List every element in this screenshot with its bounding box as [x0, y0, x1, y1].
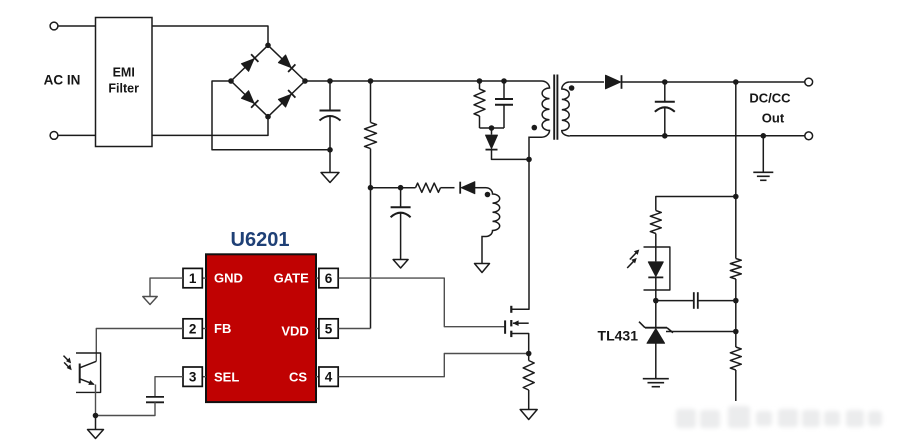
wire to D6 — [491, 128, 493, 135]
pin 1 box — [183, 268, 202, 287]
wire rail to R1 — [370, 81, 372, 122]
diode D5 aux rectifier (points left) — [461, 182, 475, 194]
wire EMI top to bridge AC1 — [152, 26, 268, 45]
pin 3 box — [183, 367, 202, 386]
bridge diode D1 (left to top) — [241, 59, 254, 72]
pin 6 stub — [316, 277, 319, 279]
wire junction to C2 tap — [371, 187, 416, 189]
svg-text:GND: GND — [214, 271, 243, 286]
wire R7 to ground — [528, 390, 530, 410]
aux winding phase dot — [485, 192, 491, 198]
svg-text:3: 3 — [189, 370, 197, 385]
node startup resistor tap — [368, 78, 374, 84]
wire C5 to divider node — [698, 300, 736, 302]
wire top terminal to EMI — [58, 25, 96, 27]
earth ground output — [762, 136, 764, 173]
ground primary-side (bulk) — [329, 150, 331, 173]
bridge diode D2 (top to right) — [278, 55, 291, 68]
pin 4 stub — [316, 376, 319, 378]
diode D7 output rectifier (points right) — [606, 75, 621, 89]
svg-text:6: 6 — [325, 271, 333, 286]
svg-text:SEL: SEL — [214, 369, 239, 384]
svg-text:VDD: VDD — [281, 324, 308, 339]
wire bridge minus to ground node — [212, 81, 330, 150]
svg-text:AC IN: AC IN — [44, 73, 81, 88]
node output cap top — [662, 79, 668, 85]
EMI filter block — [96, 18, 153, 147]
ground pin1 — [149, 296, 151, 298]
MOSFET body stub with arrow — [513, 322, 529, 324]
wire sense vertical upper — [735, 82, 737, 259]
wire R4 to cap node — [735, 279, 737, 332]
wire D6 to drain node — [492, 150, 530, 160]
capacitor C3 snubber — [495, 98, 513, 100]
resistor R2 aux series — [416, 183, 441, 192]
wire snubber join — [480, 127, 505, 129]
svg-text:1: 1 — [189, 271, 197, 286]
node drain junction — [526, 157, 532, 163]
pin 2 stub — [202, 328, 206, 330]
TL431 shunt regulator U2 — [645, 327, 667, 329]
bridge node top — [265, 43, 271, 49]
wire pin4 CS to source node — [339, 354, 529, 377]
bridge edge top-right wire — [268, 45, 305, 81]
transformer primary phase dot — [532, 125, 538, 131]
output terminal bottom — [805, 132, 813, 140]
wire rail to R3 — [479, 81, 481, 89]
svg-text:CS: CS — [289, 369, 307, 384]
wire R6 to LED — [655, 234, 657, 262]
node TL431 cathode junction — [653, 298, 659, 304]
bridge node left — [228, 78, 234, 84]
pin 2 box — [183, 319, 202, 338]
node bulk cap tap — [327, 78, 333, 84]
node C2 tap — [398, 185, 404, 191]
wire R1 to VDD node — [370, 149, 372, 188]
bridge edge bottom-right wire — [268, 81, 305, 117]
node snubber R tap — [477, 78, 483, 84]
svg-text:2: 2 — [189, 321, 197, 336]
wire drain vertical — [511, 159, 529, 309]
resistor R5 divider lower — [730, 347, 741, 370]
svg-text:GATE: GATE — [274, 271, 309, 286]
wire VDD vertical to pin5 row — [370, 188, 372, 329]
resistor R6 LED series — [650, 211, 661, 234]
MOSFET source stub — [511, 334, 528, 354]
op-amp U1 body (U6201 controller) — [206, 254, 316, 402]
node emitter junction — [93, 413, 99, 419]
bridge node right — [302, 78, 308, 84]
wire TL431 ref to divider — [666, 331, 736, 333]
transformer core — [553, 75, 555, 140]
wire LED to TL431 node — [655, 278, 657, 301]
ground below C2 — [400, 259, 402, 261]
svg-text:4: 4 — [325, 370, 333, 385]
output terminal top — [805, 78, 813, 86]
transformer secondary winding — [562, 82, 570, 136]
node bulk ground junction — [327, 147, 333, 153]
svg-text:EMI: EMI — [113, 66, 135, 80]
pin 3 stub — [202, 376, 206, 378]
wire EMI bottom to bridge AC2 — [152, 117, 268, 136]
ground below optocoupler — [95, 416, 97, 430]
ground below R7 — [528, 409, 530, 411]
node feedback cap right — [733, 298, 739, 304]
LED light arrow 1 — [630, 251, 638, 259]
earth ground TL431 — [655, 378, 657, 380]
light arrow into Q1 (2) — [64, 362, 70, 368]
capacitor C6 SEL — [146, 396, 164, 398]
ground below aux winding — [481, 263, 483, 265]
wire node to TL431 — [655, 301, 657, 328]
wire secondary top to D7 — [570, 81, 604, 83]
wire bottom terminal to EMI — [58, 134, 96, 136]
optocoupler LED (points down) — [648, 262, 663, 277]
wire ref node to R5 — [735, 332, 737, 348]
optocoupler LED package bracket — [644, 247, 670, 290]
pin 6 box — [319, 268, 338, 287]
bridge edge left-top wire — [231, 45, 268, 81]
svg-text:FB: FB — [214, 321, 231, 336]
pin 5 stub — [316, 328, 319, 330]
pin 5 box — [319, 319, 338, 338]
resistor R3 snubber — [474, 89, 485, 116]
capacitor C1 bulk (polarized) — [329, 81, 331, 111]
pin 4 box — [319, 367, 338, 386]
phototransistor collector — [80, 361, 97, 368]
transformer secondary phase dot — [569, 85, 575, 91]
wire pin2 FB to opto collector — [96, 329, 183, 362]
wire below R5 — [735, 370, 737, 401]
wire R2 to D5 — [441, 187, 455, 189]
pin 1 stub — [202, 277, 206, 279]
svg-text:Filter: Filter — [108, 82, 139, 96]
input terminal bottom — [50, 132, 58, 140]
phototransistor emitter with arrow — [80, 379, 94, 385]
node source junction — [526, 351, 532, 357]
wire C6 to emitter rail — [96, 402, 156, 415]
node TL431 ref — [733, 329, 739, 335]
resistor R1 startup — [365, 122, 377, 148]
bridge diode D3 (left to bottom) — [241, 91, 254, 104]
MOSFET gate bar — [504, 320, 506, 333]
capacitor C4 output (polarized) — [664, 82, 666, 102]
node snubber diode tap — [489, 125, 495, 131]
resistor R4 divider upper — [730, 259, 741, 280]
svg-text:Out: Out — [762, 111, 785, 126]
capacitor C2 VDD (polarized) — [400, 188, 402, 208]
resistor R7 current sense — [523, 361, 534, 391]
phototransistor Q1 base bar — [79, 364, 81, 384]
wire D5 to aux winding — [475, 187, 486, 189]
wire pin6 GATE to MOSFET gate — [339, 278, 506, 327]
svg-text:TL431: TL431 — [598, 328, 639, 344]
light arrow into Q1 (1) — [64, 356, 70, 362]
svg-text:5: 5 — [325, 321, 333, 336]
diode D6 snubber (points down) — [486, 135, 498, 149]
optocoupler phototransistor package bracket — [76, 353, 101, 392]
bridge node bottom — [265, 114, 271, 120]
capacitor C5 feedback — [693, 292, 695, 309]
aux winding of transformer — [482, 188, 500, 264]
node output earth tap — [761, 133, 767, 139]
svg-text:U6201: U6201 — [231, 229, 290, 251]
wire branch to opto resistor — [656, 197, 736, 211]
svg-text:DC/CC: DC/CC — [749, 91, 791, 106]
wire pin5 VDD — [339, 328, 371, 330]
decor — [676, 406, 882, 428]
bridge diode D4 (bottom to right) — [278, 95, 291, 108]
node output cap bottom — [662, 133, 668, 139]
wire R3 bottom — [479, 116, 481, 128]
wire rail to C3 — [503, 81, 505, 99]
wire C3 bottom — [503, 105, 505, 128]
wire cap node to C5 — [656, 300, 694, 302]
wire pin3 SEL to C6 — [155, 377, 183, 397]
input terminal top — [50, 22, 58, 30]
node sense divider top — [733, 79, 739, 85]
LED light arrow 2 — [627, 260, 635, 268]
transistor Q2 MOSFET channel segments — [510, 306, 512, 313]
wire DC+ rail — [305, 80, 542, 82]
node divider branch — [733, 194, 739, 200]
wire secondary bottom rail — [570, 135, 805, 137]
node VDD branch junction — [368, 185, 374, 191]
transformer primary winding — [529, 81, 550, 159]
node snubber C tap — [501, 78, 507, 84]
bridge edge left-bottom wire — [231, 81, 268, 117]
wire pin1 GND — [150, 278, 183, 296]
wire D7 to output + — [622, 81, 805, 83]
wire source to R7 — [528, 354, 530, 361]
